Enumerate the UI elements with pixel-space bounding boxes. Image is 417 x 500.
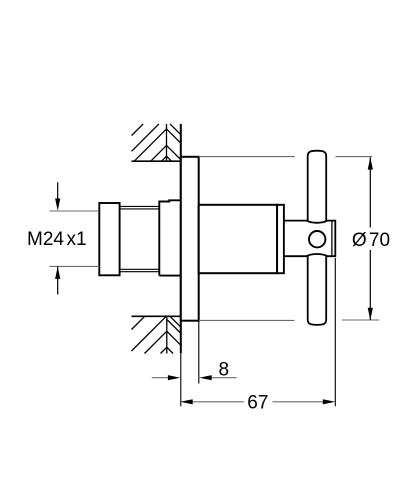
wall section bottom block (132, 316, 181, 353)
wall face line (180, 124, 182, 353)
rough-in body block (159, 200, 181, 275)
sleeve (199, 205, 277, 273)
hatch plaster top "\" (170, 124, 181, 135)
svg-text:8: 8 (219, 359, 230, 380)
valve body cap nut (99, 203, 119, 275)
handle bar (308, 151, 327, 325)
dim Ø70 arrow top (368, 157, 373, 169)
dim 8 arrow right (199, 375, 211, 380)
hatch divider top (166, 124, 168, 161)
svg-text:M24x1: M24x1 (27, 229, 87, 250)
dim M24x1 arrow top (57, 182, 59, 199)
dim 67 arrow left (180, 399, 192, 404)
hatch divider bottom (166, 316, 168, 353)
thread section lines (120, 206, 160, 271)
wall bottom block top edge (132, 315, 181, 317)
dim Ø70 vertical (369, 157, 371, 320)
dim M24x1 (50, 211, 100, 266)
wall top block bottom edge (132, 160, 181, 162)
dim 8 (152, 377, 237, 379)
svg-text:67: 67 (247, 393, 268, 414)
svg-text:Ø70: Ø70 (352, 230, 390, 251)
dim M24x1 arrow bottom (57, 266, 59, 294)
sleeve end ring (277, 205, 284, 273)
wall section top block (132, 124, 181, 161)
escutcheon plate (181, 157, 199, 321)
hub face inner line (331, 221, 333, 257)
hatch masonry bottom "/" (132, 316, 145, 329)
hatch plaster bottom "\" (170, 316, 181, 327)
extension verticals (181, 258, 335, 406)
dim Ø70 extension lines (gray) (199, 157, 379, 321)
dim 8 arrow left (168, 375, 180, 380)
hub screw circle (309, 231, 325, 247)
dim 67 (191, 401, 324, 403)
hatch masonry top "/" (132, 124, 144, 136)
dim 67 arrow right (323, 399, 335, 404)
handle hub (284, 221, 335, 257)
dim Ø70 arrow bottom (368, 308, 373, 320)
